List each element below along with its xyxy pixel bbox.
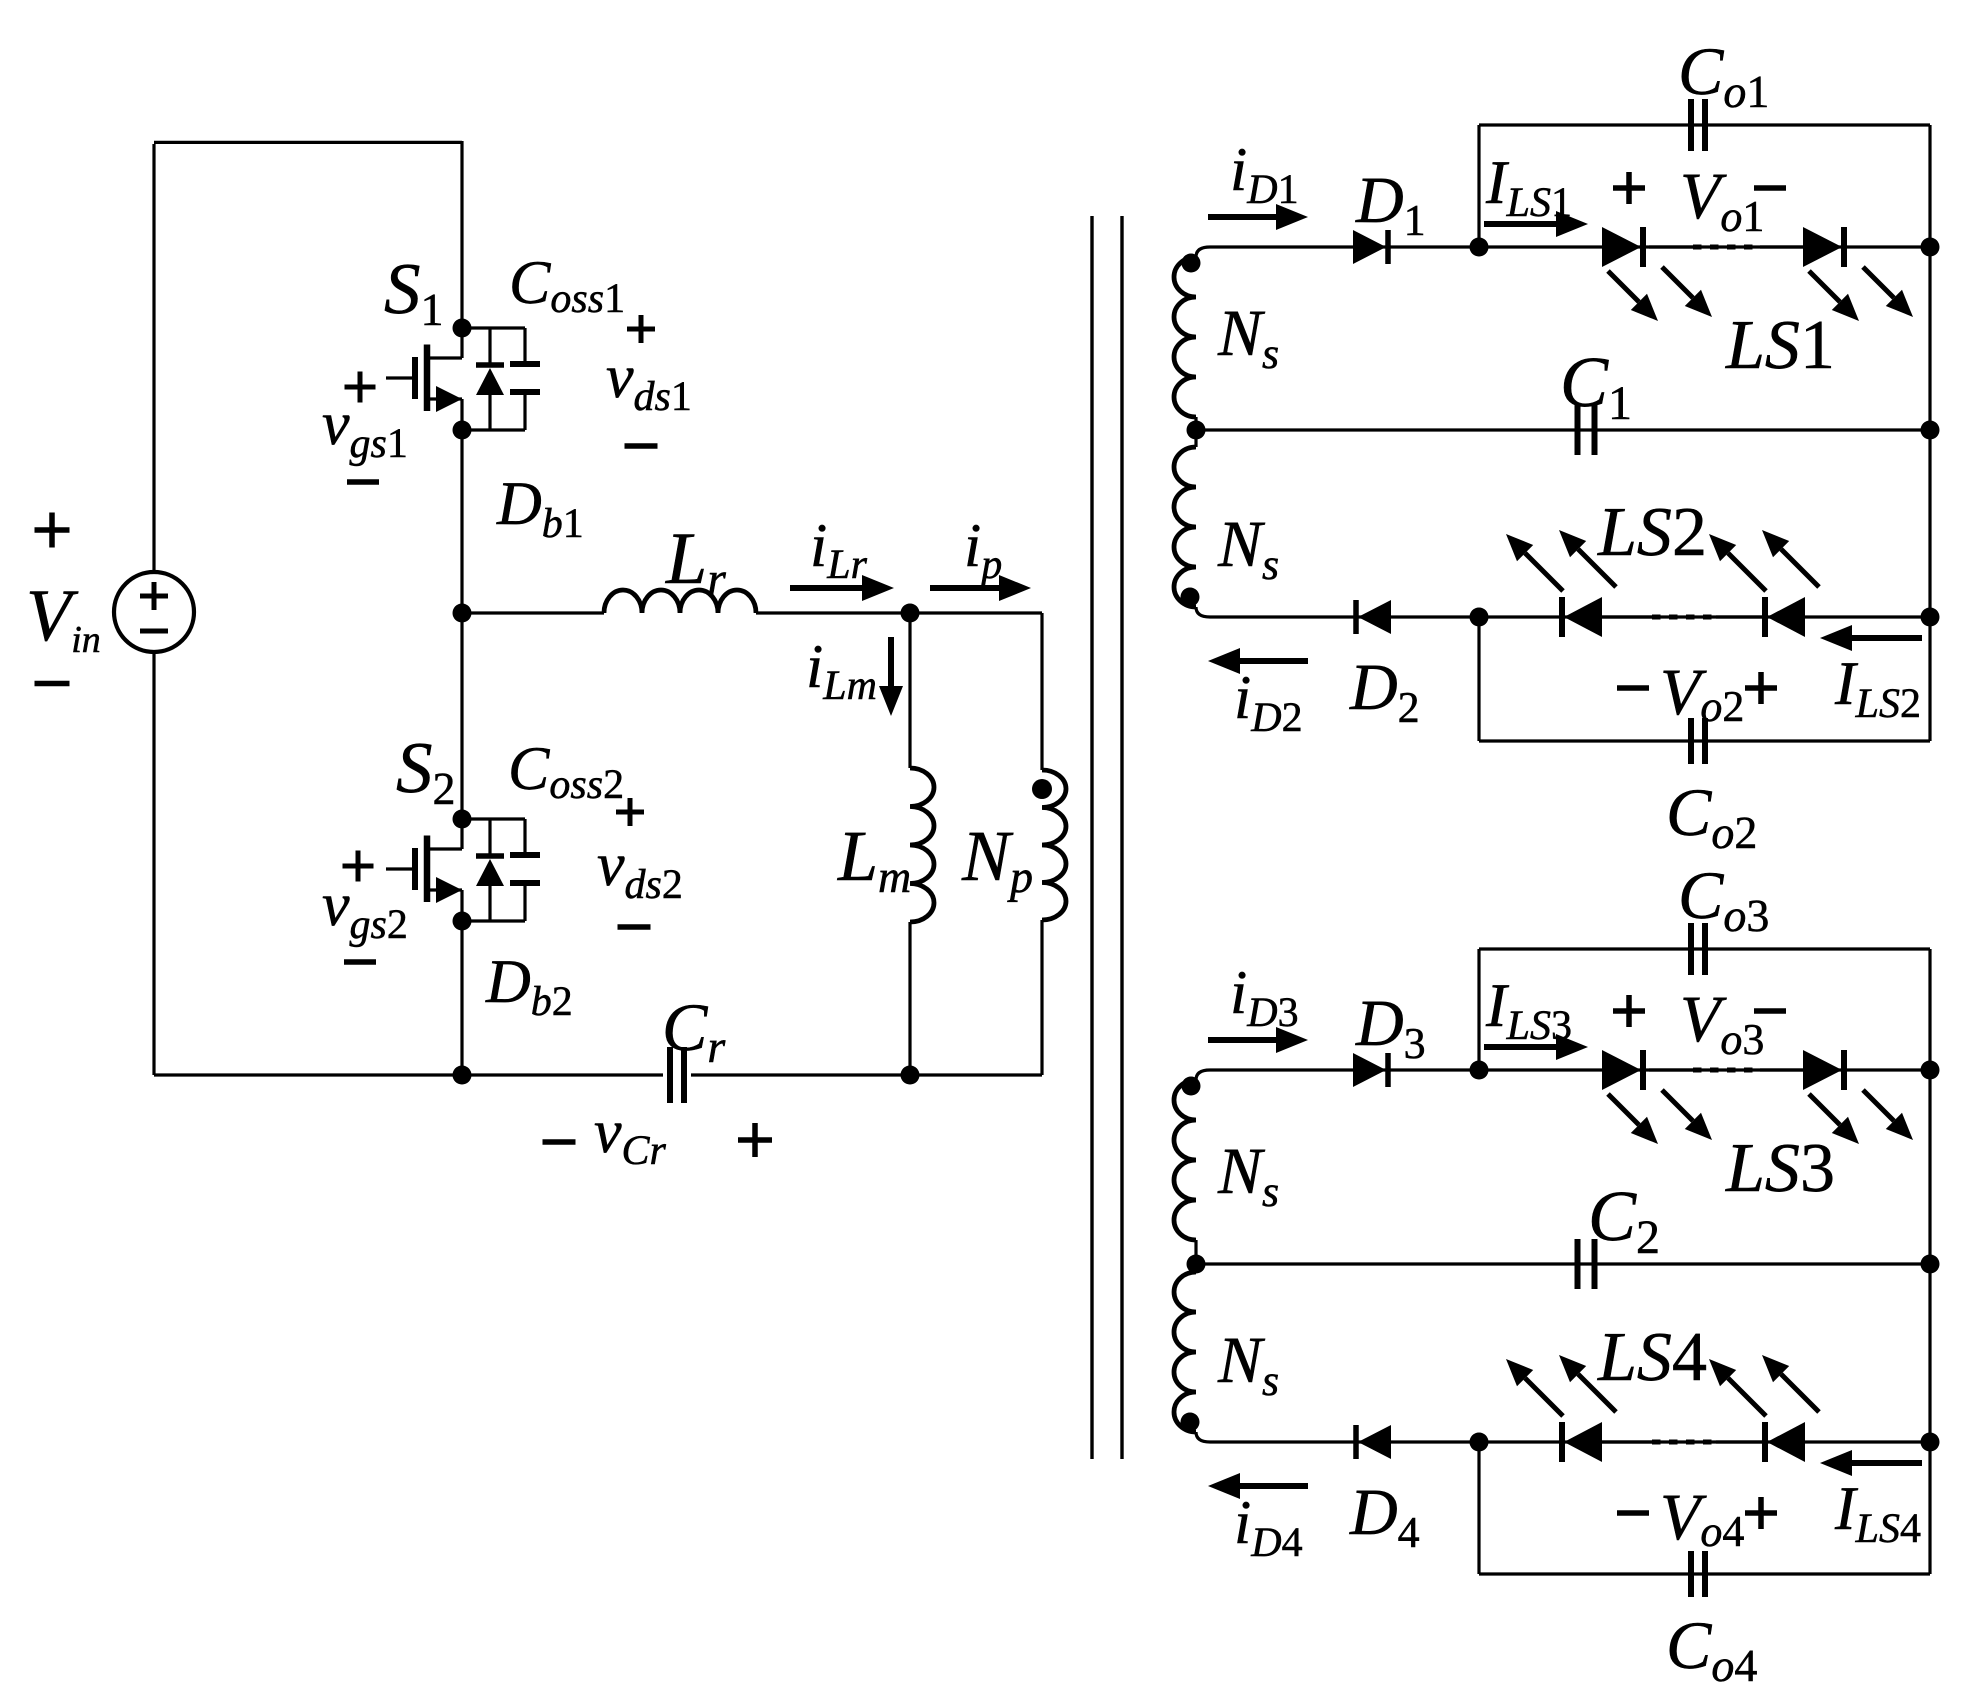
inductor Lr (604, 590, 756, 613)
LS3 LED2 light arrows (1809, 1094, 1840, 1125)
secondary winding Ns (upper, section 1) (1196, 247, 1210, 257)
LS1 LED2 light arrows (1809, 271, 1840, 302)
node LS1 right (1921, 238, 1940, 257)
node LS4 right (1921, 1433, 1940, 1452)
capacitor Co2 (1688, 718, 1694, 764)
node LS3 right (1921, 1061, 1940, 1080)
wire switch leg top (460, 141, 463, 330)
wire dashed (more LEDs LS3) (1649, 1068, 1693, 1071)
label − (vgs1) (347, 479, 379, 485)
node C1 right (1921, 421, 1940, 440)
node B (Lm/Np top) (901, 604, 920, 623)
label + (vds1) (627, 327, 655, 332)
label + (Vo3) (1613, 1008, 1645, 1014)
node junction D3 (1470, 1061, 1489, 1080)
label − (Vo1) (1754, 185, 1786, 191)
label − (Vin) (35, 681, 70, 687)
polarity dot Ns lower (section 2) (1181, 1413, 1200, 1432)
svg-text:LS4: LS4 (1597, 1319, 1707, 1396)
node junction D4 (1470, 1433, 1489, 1452)
node C2 right (1921, 1255, 1940, 1274)
diode D3 (1353, 1053, 1386, 1087)
wire top rail (154, 141, 462, 144)
label + (vCr) (738, 1137, 772, 1143)
wire right rail (section 2) (1928, 949, 1931, 1574)
wire node to Np branch (910, 611, 1042, 614)
transistor S2 (MOSFET with body diode Db2 and cap Coss2) (460, 819, 463, 849)
wire D4 row (1210, 1440, 1930, 1443)
wire right rail (section 1) (1928, 125, 1931, 741)
wire switch leg middle (460, 430, 463, 819)
wire junction vertical (D3 row) (1477, 949, 1480, 1070)
wire switch leg bottom (460, 921, 463, 1075)
wire D1 row (1210, 245, 1930, 248)
polarity dot Np (1032, 779, 1052, 799)
wire bottom cap rail (section 1) (1479, 739, 1930, 742)
label + (vds2) (616, 810, 644, 815)
node junction D1 (1470, 238, 1489, 257)
polarity dot Ns lower (section 1) (1181, 588, 1200, 607)
node LS2 right (1921, 608, 1940, 627)
arrow ILS4 (1852, 1460, 1922, 1466)
wire mid-rail to Lr (462, 611, 604, 614)
label − (vds1) (625, 443, 658, 449)
label + (vgs1) (345, 385, 376, 390)
label + (Vo2) (1745, 685, 1777, 691)
node bottom-left junction (453, 1066, 472, 1085)
arrow iLr (790, 585, 862, 591)
wire Lm bottom (908, 922, 911, 1075)
capacitor C1 (1575, 405, 1581, 455)
LED string LS3 first LED (1602, 1050, 1641, 1090)
wire left rail top (152, 144, 155, 572)
label − (vds2) (618, 924, 651, 930)
LED string LS3 last LED (1803, 1050, 1842, 1090)
label − (Vo2) (1617, 685, 1649, 691)
node center tap (section 1) (1187, 421, 1206, 440)
LS4 LED2 light arrows (1728, 1378, 1766, 1416)
label − (vCr) (543, 1139, 576, 1145)
label + (Vo1) (1613, 185, 1645, 191)
arrow iD4 (1240, 1483, 1308, 1489)
LED string LS2 first LED (1559, 597, 1565, 637)
arrow iLm (888, 637, 894, 686)
node center tap (section 2) (1187, 1255, 1206, 1274)
diode D2 (1353, 600, 1359, 634)
wire bottom cap rail (section 2) (1479, 1572, 1930, 1575)
secondary winding Ns (lower, section 1) (1194, 430, 1197, 447)
label + (Vo4) (1745, 1510, 1777, 1516)
voltage source Vin (114, 572, 194, 652)
polarity dot Ns upper (section 1) (1182, 254, 1201, 273)
LS1 LED1 light arrows (1608, 271, 1639, 302)
wire left rail bottom (152, 652, 155, 1075)
secondary winding Ns (upper, section 2) (1196, 1070, 1210, 1080)
LED string LS4 first LED (1559, 1422, 1565, 1462)
capacitor Cr (667, 1047, 673, 1103)
wire Np bottom (1040, 920, 1043, 1075)
arrow iD1 (1208, 214, 1276, 220)
node Lm bottom (901, 1066, 920, 1085)
arrow ILS2 (1852, 635, 1922, 641)
LS4 LED1 light arrows (1525, 1378, 1563, 1416)
wire Lm top (908, 613, 911, 768)
label − (Vo3) (1754, 1008, 1786, 1014)
polarity dot Ns upper (section 2) (1182, 1077, 1201, 1096)
wire Lr to node (756, 611, 910, 614)
arrow ILS3 (1484, 1044, 1556, 1050)
wire C2 row (1196, 1262, 1930, 1265)
capacitor Co3 (1688, 923, 1694, 975)
wire bottom rail right (691, 1073, 1042, 1076)
svg-text:LS2: LS2 (1597, 494, 1707, 571)
winding Np (1042, 770, 1066, 920)
wire top cap rail (section 1) (1479, 123, 1930, 126)
wire dashed (more LEDs LS4) (1602, 1440, 1652, 1443)
transistor S1 (MOSFET with body diode Db1 and cap Coss1) (460, 328, 463, 358)
svg-text:LS3: LS3 (1725, 1130, 1835, 1207)
LED string LS4 last LED (1762, 1422, 1768, 1462)
label + (Vin) (35, 527, 70, 533)
wire junction vertical (D1 row) (1477, 125, 1480, 247)
wire C1 row (1196, 428, 1930, 431)
diode D1 (1353, 230, 1386, 264)
wire D3 row (1210, 1068, 1930, 1071)
arrow iD2 (1240, 658, 1308, 664)
label + (vgs2) (343, 864, 374, 869)
secondary winding Ns (lower, section 2) (1194, 1264, 1197, 1272)
transformer core line 2 (1120, 216, 1123, 1459)
inductor Lm (910, 768, 934, 922)
diode D4 (1353, 1425, 1359, 1459)
LS2 LED1 light arrows (1525, 553, 1563, 591)
LS2 LED2 light arrows (1728, 553, 1766, 591)
wire bottom rail left (154, 1073, 663, 1076)
arrow ILS1 (1484, 221, 1556, 227)
wire junction vertical (D2 row to Co2) (1477, 617, 1480, 741)
wire Np top (1040, 613, 1043, 770)
capacitor Co4 (1688, 1551, 1694, 1597)
node junction D2 (1470, 608, 1489, 627)
wire dashed (more LEDs LS1) (1649, 245, 1693, 248)
svg-text:LS1: LS1 (1725, 307, 1835, 384)
arrow iD3 (1208, 1037, 1276, 1043)
LED string LS2 last LED (1762, 597, 1768, 637)
LS3 LED1 light arrows (1608, 1094, 1639, 1125)
wire dashed (more LEDs LS2) (1602, 615, 1652, 618)
transformer core line 1 (1090, 216, 1093, 1459)
arrow ip (930, 585, 999, 591)
wire D2 row (1210, 615, 1930, 618)
node A (half-bridge midpoint) (453, 604, 472, 623)
capacitor C2 (1575, 1239, 1581, 1289)
label − (vgs2) (344, 959, 376, 965)
label − (Vo4) (1617, 1510, 1649, 1516)
capacitor Co1 (1688, 99, 1694, 151)
wire junction vertical (D4 row to Co4) (1477, 1442, 1480, 1574)
wire top cap rail (section 2) (1479, 947, 1930, 950)
LED string LS1 first LED (1602, 227, 1641, 267)
LED string LS1 last LED (1803, 227, 1842, 267)
